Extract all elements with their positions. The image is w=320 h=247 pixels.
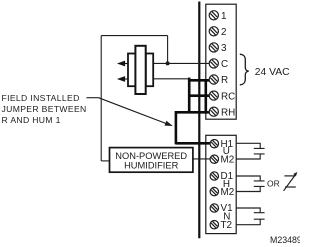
- wire: solenoid top pin to terminal C: [153, 62, 210, 64]
- spray arrow top: [117, 61, 125, 67]
- dehumidifier contact symbol: [236, 176, 264, 192]
- svg-text:T2: T2: [221, 220, 233, 231]
- leader arrowhead: [165, 121, 173, 126]
- non-powered humidifier label box: [110, 148, 193, 173]
- svg-text:RH: RH: [221, 107, 235, 118]
- humidifier solenoid left winding: [128, 54, 135, 87]
- svg-text:M2: M2: [221, 154, 235, 165]
- thick jumper wire to RH: [176, 111, 210, 114]
- terminal M2 (hum): [210, 155, 218, 163]
- wire: solenoid bottom pin: [153, 78, 189, 80]
- wire: stub into humidifier label box: [101, 160, 109, 162]
- terminal 3: [209, 43, 218, 52]
- humidifier solenoid right winding: [146, 54, 153, 87]
- thick jumper wire to R: [189, 79, 210, 82]
- terminal 1: [209, 11, 218, 20]
- thick jumper vertical at bundle: [188, 78, 191, 114]
- svg-text:R: R: [221, 75, 228, 86]
- humidifier solenoid core: [135, 46, 145, 94]
- terminal H1: [210, 140, 218, 148]
- wire: humidifier leader top horizontal: [101, 35, 167, 37]
- thick jumper vertical left leg: [175, 111, 178, 144]
- wire: humidifier leader left vertical: [100, 36, 102, 161]
- humidifier contact symbol: [236, 143, 264, 159]
- terminal M2 (dehum): [210, 187, 218, 195]
- terminal D1: [210, 172, 218, 180]
- terminal R: [209, 75, 218, 84]
- terminal RH: [209, 107, 218, 116]
- svg-text:HUMIDIFIER: HUMIDIFIER: [124, 161, 179, 171]
- thick jumper wire to RC: [189, 94, 210, 97]
- humidistat contact symbol: [284, 174, 297, 191]
- terminal RC: [209, 91, 218, 100]
- svg-text:2: 2: [221, 27, 227, 38]
- junction dot on C wire: [166, 61, 170, 65]
- svg-text:1: 1: [221, 11, 227, 22]
- spray arrow bottom: [117, 76, 125, 82]
- svg-text:NON-POWERED: NON-POWERED: [115, 151, 187, 161]
- svg-text:3: 3: [221, 43, 227, 54]
- leader line from note: [87, 97, 99, 99]
- wire: drop from leader to C wire: [167, 36, 169, 64]
- thick connector R-RC-RH on box edge: [205, 79, 208, 113]
- terminal 2: [209, 27, 218, 36]
- 24 VAC brace: [240, 54, 249, 85]
- wire: humidifier box to terminal M2: [193, 158, 210, 160]
- svg-text:JUMPER BETWEEN: JUMPER BETWEEN: [2, 104, 87, 114]
- svg-text:RC: RC: [221, 91, 235, 102]
- svg-text:M2: M2: [221, 187, 235, 198]
- ventilator contact symbol: [236, 208, 264, 225]
- svg-text:FIELD INSTALLED: FIELD INSTALLED: [2, 93, 80, 103]
- svg-text:OR: OR: [267, 178, 280, 188]
- terminal C: [209, 59, 218, 68]
- terminal V1: [210, 204, 218, 212]
- lower terminal box: [206, 135, 236, 233]
- terminal T2: [210, 221, 218, 229]
- svg-text:R AND HUM 1: R AND HUM 1: [2, 115, 61, 125]
- svg-text:C: C: [221, 59, 228, 70]
- svg-text:M23489: M23489: [270, 235, 300, 245]
- upper terminal box: [206, 4, 236, 119]
- thick jumper wire to H1: [176, 142, 210, 145]
- equipment boundary separator line: [198, 2, 200, 239]
- svg-text:24 VAC: 24 VAC: [255, 67, 290, 78]
